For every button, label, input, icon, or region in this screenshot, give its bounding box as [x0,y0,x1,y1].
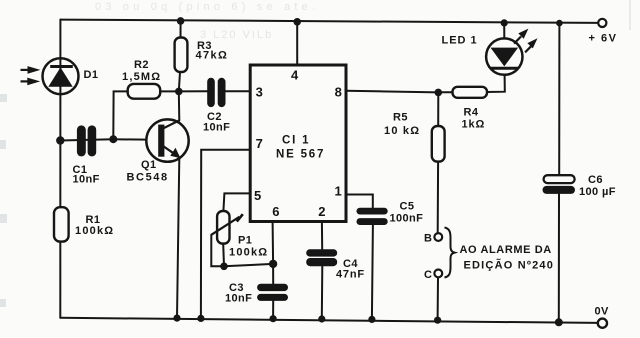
wire C2 to pin 3 [225,90,250,92]
wire R2 right to node [160,90,179,92]
wire C5 to rail [372,225,373,319]
resistor R4 [453,87,488,98]
wire C6 bottom [558,194,560,322]
capacitor C5 [357,208,388,225]
svg-text:C5: C5 [400,201,415,213]
IC U1 NE567 box [250,65,346,222]
svg-text:D1: D1 [84,69,99,81]
svg-text:BC548: BC548 [127,172,169,184]
svg-text:AO ALARME DA: AO ALARME DA [460,244,552,256]
wire C terminal to rail [437,277,439,320]
capacitor C6 electrolytic [543,175,576,194]
node C1 right [109,135,117,143]
wire C6 top [558,23,560,175]
resistor R3 [175,38,188,73]
svg-text:EDIÇÃO Nº240: EDIÇÃO Nº240 [464,259,555,272]
svg-text:6: 6 [272,204,279,219]
wire P1 node to pin6 node [224,264,273,266]
svg-text:03 ou 0q (pino 6) se ate.: 03 ou 0q (pino 6) se ate. [95,1,319,13]
node C6 rail bottom [555,318,563,326]
svg-text:10nF: 10nF [225,293,252,305]
wire P1 wiper drop [211,235,224,266]
wire pin 5 to P1 [223,193,250,211]
wire pin 6 drop [272,222,275,284]
wire pin 1 to C5 [346,195,373,208]
resistor R2 [128,84,161,99]
svg-text:C6: C6 [588,174,603,186]
svg-text:NE 567: NE 567 [276,149,325,161]
D1 light arrow lower [21,78,41,86]
svg-text:CI 1: CI 1 [282,135,310,147]
terminal B [434,233,442,241]
node switch rail [434,317,441,324]
svg-text:100kΩ: 100kΩ [229,247,268,259]
svg-text:R4: R4 [464,107,479,119]
wire Q1 collector riser [178,91,181,120]
svg-text:R2: R2 [134,59,149,71]
LED1 light arrow lower [525,38,537,52]
svg-text:2: 2 [318,204,325,219]
wire C3 to rail [272,301,274,319]
resistor R1 [54,207,69,241]
svg-text:R5: R5 [393,112,408,124]
terminal 0V [598,319,607,328]
svg-text:Q1: Q1 [141,159,156,171]
wire Q1 emitter drop [177,158,179,318]
wire pin 8 to node [346,91,438,93]
svg-text:0V: 0V [595,306,610,318]
wire pin 2 drop [321,222,323,250]
node R3 bottom [175,88,183,96]
terminal +6V [598,19,606,27]
svg-text:8: 8 [335,85,342,100]
svg-text:1kΩ: 1kΩ [462,119,486,131]
transistor Q1 [146,119,188,161]
terminal C [434,270,442,278]
svg-text:5: 5 [254,188,261,203]
svg-text:1: 1 [335,184,342,199]
resistor R5 [432,126,445,162]
D1 light arrow upper [21,66,41,74]
wire Q1 base [113,138,158,140]
node pin6 C3 [269,260,277,268]
svg-text:47kΩ: 47kΩ [196,50,229,62]
wire pin 4 riser [296,22,298,65]
potentiometer P1 [211,211,243,244]
wire node to R4 [438,91,452,93]
capacitor C2 [207,78,225,107]
svg-text:10nF: 10nF [73,174,100,186]
node C6 rail [556,20,563,27]
wire left rail [59,20,61,318]
wire R3 top drop [180,21,182,38]
capacitor C4 [306,249,337,266]
wire node to R5 [437,92,439,126]
wire top rail [60,20,598,23]
node emitter rail [173,315,180,322]
wire C4 to rail [321,266,324,319]
node pin7 rail [197,315,204,322]
wire R5 to B terminal [437,161,439,233]
node pin4 rail [293,18,301,26]
node pin8 R4 R5 [435,89,443,97]
LED1 light arrow upper [514,29,528,44]
wire R3 bottom to node [179,72,180,92]
node R3 top [177,17,185,25]
svg-text:100kΩ: 100kΩ [75,225,114,237]
svg-text:3: 3 [256,85,263,100]
svg-text:47nF: 47nF [336,269,365,281]
svg-text:100 µF: 100 µF [579,186,616,198]
brace to alarm [445,228,455,278]
svg-text:10 kΩ: 10 kΩ [384,125,420,137]
wire LED inner top [503,39,505,48]
wire R2 left riser [113,91,127,139]
node C3 rail [270,315,277,322]
wire LED top [503,23,505,39]
node LED rail [501,19,508,26]
wire C1 branch [60,139,113,140]
svg-text:10nF: 10nF [203,122,230,134]
node C1 left [56,136,64,144]
svg-text:B: B [424,233,432,245]
svg-text:C: C [424,269,432,281]
photodiode D1 [43,58,79,94]
svg-text:LED 1: LED 1 [442,35,478,47]
wire bottom rail [60,318,598,323]
svg-text:P1: P1 [238,235,252,247]
node C5 rail [368,316,375,323]
capacitor C1 [77,125,96,156]
svg-text:100nF: 100nF [390,213,424,225]
wire pin 7 ground [201,150,250,319]
wire P1 bottom [222,244,225,267]
node C4 rail [318,315,325,322]
capacitor C3 [257,284,288,301]
node P1 bottom [220,263,228,271]
svg-text:4: 4 [291,68,299,83]
svg-text:1,5MΩ: 1,5MΩ [122,71,161,83]
LED LED1 [486,38,522,74]
wire LED inner bottom [503,69,505,75]
wire node to C2 [179,90,208,92]
wire R4 to LED [487,75,505,92]
svg-text:+ 6V: + 6V [589,33,618,45]
svg-text:7: 7 [256,136,263,151]
